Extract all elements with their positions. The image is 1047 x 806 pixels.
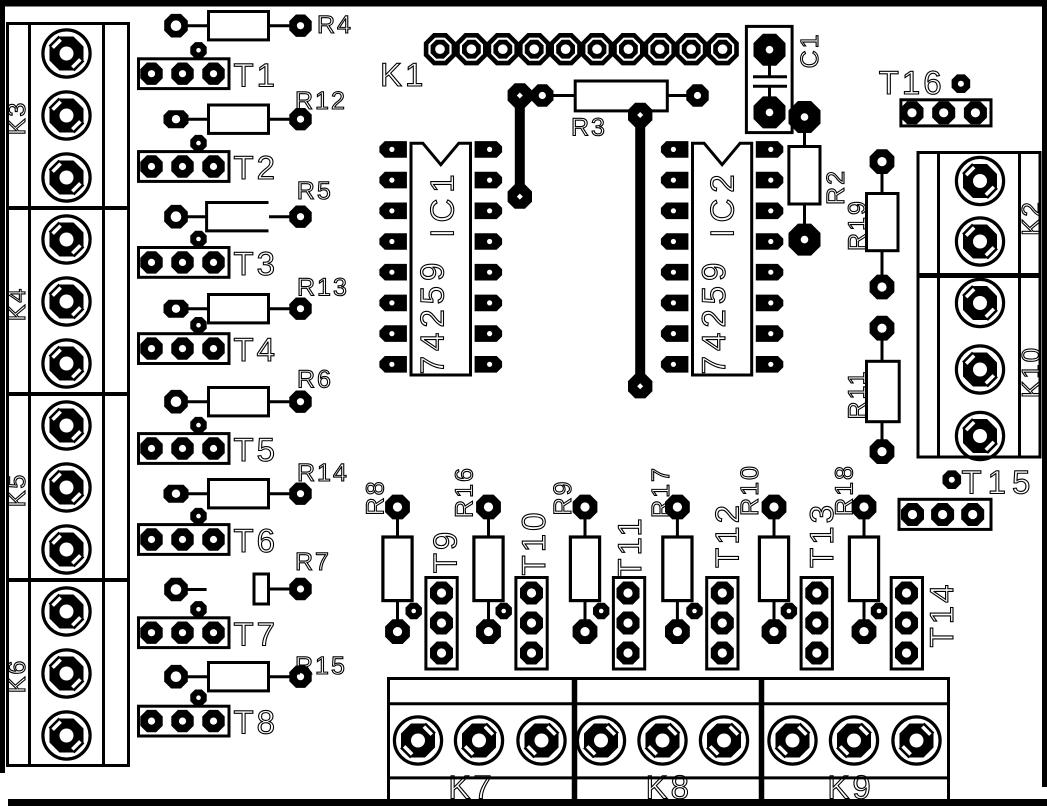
svg-text:T2: T2 [234,149,279,186]
svg-text:C1: C1 [796,32,824,68]
svg-text:R5: R5 [297,177,333,205]
svg-text:T10: T10 [515,510,552,576]
terminal block group K7-K9 outline [387,677,950,805]
resistor R19 [844,149,899,299]
svg-text:R11: R11 [844,369,872,419]
resistor R9 [549,480,600,644]
terminal block K9 [769,717,940,806]
pin header T10 [496,510,553,669]
svg-text:K7: K7 [448,769,494,806]
svg-text:T11: T11 [611,515,648,578]
resistor R7 [164,548,331,604]
resistor R8 [362,480,413,644]
board outline left edge [0,0,5,773]
via pad end of left trace [508,184,532,208]
svg-text:T13: T13 [803,502,840,568]
svg-text:R13: R13 [297,274,349,302]
resistor R15 [164,652,347,691]
svg-text:K5: K5 [3,473,31,508]
svg-text:R12: R12 [295,87,347,115]
terminal block K4 [3,216,90,387]
pin header T1 [139,42,279,93]
resistor R17 [647,466,692,644]
board outline bottom edge [8,799,1047,806]
pin header T4 [139,317,279,368]
resistor R4 [164,11,353,40]
pin header T7 [139,601,279,652]
pin header T5 [139,417,279,468]
svg-text:K6: K6 [3,659,31,694]
svg-text:T8: T8 [234,704,279,741]
svg-text:K4: K4 [3,287,31,322]
svg-text:R4: R4 [317,11,353,39]
pin header T12 [686,502,745,669]
pin header T13 [781,502,840,669]
svg-text:T3: T3 [234,245,279,282]
svg-text:T6: T6 [234,522,279,559]
pin header T16 [879,64,991,126]
svg-text:T12: T12 [709,502,746,568]
resistor R16 [450,466,503,644]
svg-text:T7: T7 [234,615,279,652]
pin header T8 [139,690,279,741]
svg-text:T4: T4 [234,331,279,368]
pin header T15 [899,464,1036,530]
pin header T3 [139,231,279,282]
pin header T2 [139,135,279,186]
terminal block K2 [956,157,1046,265]
svg-text:T15: T15 [962,464,1037,501]
resistor R13 [164,274,349,323]
resistor R2 [789,101,851,256]
terminal block group K3-K6 outline [6,24,130,766]
svg-text:T5: T5 [234,431,279,468]
terminal block K10 [956,279,1046,459]
IC IC2 (74259) [661,141,783,375]
via pad end of middle trace [628,374,652,398]
svg-text:R9: R9 [549,480,577,516]
pin header T11 [593,515,648,669]
svg-text:T1: T1 [234,56,279,93]
board outline right edge [1042,0,1047,787]
capacitor C1 [746,26,823,132]
resistor R5 [164,177,333,231]
IC IC1 (74259) [379,141,502,375]
resistor R18 [830,464,878,644]
svg-text:IC2: IC2 [704,168,741,237]
svg-text:R17: R17 [647,466,675,518]
svg-text:74259: 74259 [414,258,451,375]
svg-text:K2: K2 [1016,200,1046,236]
svg-text:K1: K1 [380,56,426,93]
svg-text:R15: R15 [295,652,347,680]
resistor R3 [531,81,709,142]
svg-text:K10: K10 [1016,346,1046,398]
svg-text:IC1: IC1 [424,168,461,237]
resistor R10 [736,464,789,644]
svg-text:74259: 74259 [695,258,732,375]
trace from node near R3 down to via [515,96,525,197]
board outline top edge [0,0,1047,7]
resistor R14 [164,459,349,508]
svg-text:R8: R8 [362,480,390,516]
terminal block K7 [394,717,565,806]
terminal block K6 [3,588,90,759]
svg-text:K9: K9 [827,769,873,806]
svg-text:T9: T9 [427,529,464,574]
pin header T9 [406,529,464,669]
svg-text:K3: K3 [3,101,31,136]
resistor R6 [164,366,333,416]
via pad top left node [508,83,532,107]
svg-text:K8: K8 [646,769,692,806]
trace from R3 junction down between ICs [635,115,645,386]
svg-text:R16: R16 [450,466,478,518]
svg-text:T14: T14 [923,582,960,648]
svg-text:R7: R7 [295,548,331,576]
pin header K1 [380,33,739,93]
terminal block K5 [3,402,90,573]
terminal block K8 [577,717,747,806]
svg-text:R14: R14 [297,459,349,487]
svg-text:R19: R19 [844,199,872,251]
svg-text:R6: R6 [297,366,333,394]
pin header T14 [871,578,960,670]
terminal block group K2-K10 outline [917,153,1042,458]
terminal block K3 [3,30,90,201]
resistor R11 [844,316,900,464]
junction pad at R3 bottom [628,103,652,127]
pin header T6 [139,508,279,559]
resistor R12 [164,87,347,133]
svg-text:R3: R3 [571,114,607,142]
svg-text:T16: T16 [879,64,945,101]
